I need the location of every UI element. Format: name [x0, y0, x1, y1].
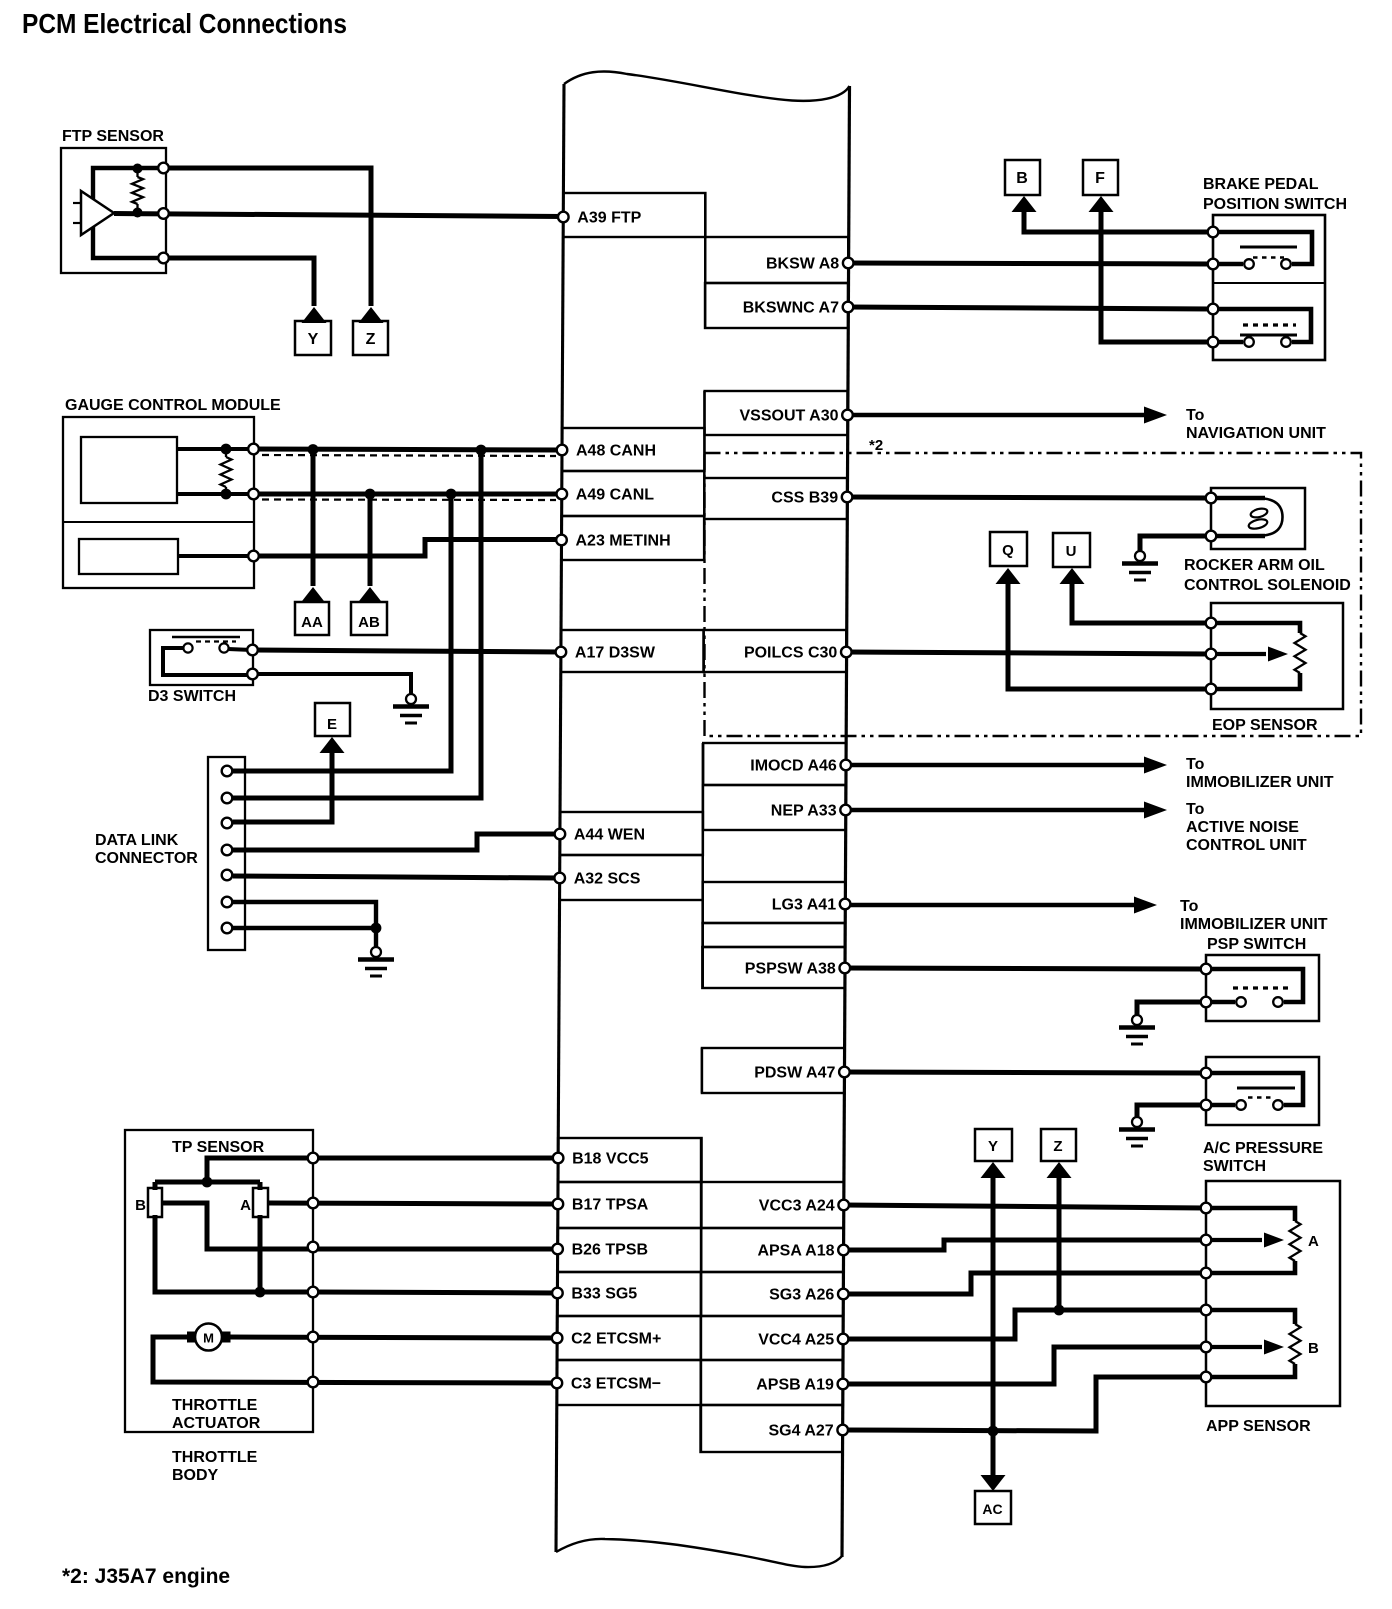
svg-text:APP SENSOR: APP SENSOR	[1206, 1418, 1311, 1435]
PSP switch blade (dashed)	[1233, 986, 1292, 989]
ground (rocker arm solenoid)	[1135, 551, 1145, 561]
wire pin C2 ETCSM+ to throttle actuator	[228, 1337, 557, 1338]
svg-text:C3 ETCSM−: C3 ETCSM−	[571, 1376, 661, 1393]
svg-text:SG4 A27: SG4 A27	[768, 1423, 833, 1440]
svg-text:AB: AB	[358, 614, 380, 631]
gauge control module terminating resistor	[225, 449, 227, 457]
solenoid coil L1	[1211, 496, 1265, 501]
APP sensor pot B resistor	[1206, 1310, 1295, 1324]
APP sensor pot A wiper arrow	[1206, 1238, 1262, 1242]
svg-text:B: B	[1016, 170, 1028, 187]
brake switch terminal circles	[1208, 227, 1219, 238]
svg-text:AA: AA	[301, 614, 323, 631]
wire CANL to data link connector pin 1	[233, 494, 451, 771]
pin LG3 A41	[703, 882, 846, 923]
FTP sensor internal resistor	[136, 168, 138, 177]
gauge control module box	[63, 417, 254, 588]
svg-text:APSA A18: APSA A18	[757, 1243, 834, 1260]
data link connector box	[208, 757, 245, 950]
PCM right bar pin circles	[843, 258, 854, 269]
svg-text:FTP SENSOR: FTP SENSOR	[62, 128, 164, 145]
op-amp U1 (FTP sensor amplifier)	[81, 191, 114, 235]
junction VCC4 to connector Z	[1054, 1305, 1065, 1316]
pin B17 TPSA	[558, 1182, 702, 1228]
svg-text:Z: Z	[1053, 1138, 1062, 1155]
svg-text:A44 WEN: A44 WEN	[574, 827, 645, 844]
svg-text:M: M	[203, 1331, 214, 1346]
wire pin NEP A33 to active noise control unit	[846, 808, 1146, 813]
svg-text:E: E	[327, 716, 337, 733]
FTP sensor feedback loop wire	[93, 168, 163, 258]
wire DLC pin 5 to pin A32 SCS	[233, 876, 560, 878]
D3 switch right contact stub	[228, 649, 252, 650]
gauge control module internal divider	[63, 521, 254, 523]
wire pin APSA A18 to APP sensor wiper A	[844, 1240, 1206, 1250]
A/C pressure switch box	[1206, 1057, 1319, 1125]
connector AC	[981, 1475, 1006, 1491]
pin BKSW A8	[705, 237, 848, 283]
PCM inner divider block VCC5..SG4	[700, 1138, 702, 1452]
pin C3 ETCSM-	[557, 1360, 701, 1405]
svg-text:THROTTLE: THROTTLE	[172, 1397, 258, 1414]
svg-text:POSITION SWITCH: POSITION SWITCH	[1203, 196, 1347, 213]
TP sensor element B	[148, 1188, 162, 1217]
wire pin CSS B39 to solenoid	[847, 497, 1211, 498]
D3 switch terminal circles	[247, 645, 258, 656]
svg-text:ROCKER ARM OIL: ROCKER ARM OIL	[1184, 557, 1325, 574]
brake switch upper internal wire	[1213, 232, 1312, 264]
wire A/C switch to ground	[1137, 1105, 1200, 1117]
svg-text:EOP SENSOR: EOP SENSOR	[1212, 717, 1318, 734]
pin A44 WEN	[560, 812, 703, 855]
svg-text:A/C PRESSURE: A/C PRESSURE	[1203, 1140, 1323, 1157]
A/C switch blade	[1237, 1087, 1295, 1090]
ground (A/C pressure switch)	[1132, 1117, 1142, 1127]
svg-text:BKSW A8: BKSW A8	[766, 256, 839, 273]
svg-text:SWITCH: SWITCH	[1203, 1158, 1266, 1175]
wire pin SG4 A27 to APP sensor	[843, 1377, 1206, 1431]
EOP sensor internal resistor R (pressure element)	[1211, 623, 1300, 633]
connector B	[1012, 196, 1037, 212]
wire solenoid to ground	[1140, 536, 1206, 551]
PCM inner divider block VSSOUT/CSS/CANH/CANL/METINH	[703, 391, 705, 560]
CANL twisted-pair dash line	[262, 498, 556, 501]
connector AB	[358, 587, 383, 603]
blank PCM cell	[703, 923, 846, 947]
brake switch upper blade (open)	[1240, 246, 1297, 249]
wire VCC5 net inside TP sensor	[207, 1158, 313, 1182]
svg-text:B33 SG5: B33 SG5	[571, 1286, 637, 1303]
gauge control module CAN unit box	[81, 437, 177, 503]
svg-text:To: To	[1186, 801, 1205, 818]
wire TP sensor B to pin B26 TPSB	[162, 1203, 558, 1249]
TP sensor element A	[253, 1188, 268, 1217]
PCM inner divider block IMOCD..PSPSW	[702, 743, 704, 988]
wire pin SG3 A26 to APP sensor	[844, 1273, 1207, 1294]
wire pin POILCS C30 to EOP sensor wiper	[846, 652, 1211, 654]
svg-text:Y: Y	[308, 331, 319, 348]
wire DLC pin 4 to pin A44 WEN	[233, 834, 560, 850]
junction DLC ground	[371, 923, 382, 934]
svg-text:ACTUATOR: ACTUATOR	[172, 1415, 261, 1432]
wire CANH net: gauge module to pin A48 CANH	[253, 449, 562, 450]
svg-text:BODY: BODY	[172, 1467, 219, 1484]
svg-text:A17 D3SW: A17 D3SW	[575, 645, 656, 662]
svg-text:PDSW A47: PDSW A47	[754, 1065, 835, 1082]
junction VCC5	[202, 1177, 213, 1188]
connector AA	[301, 587, 326, 603]
pin A48 CANH	[562, 428, 705, 471]
svg-text:D3 SWITCH: D3 SWITCH	[148, 688, 236, 705]
junction CANH to connector AA	[308, 444, 319, 455]
svg-text:A32 SCS: A32 SCS	[574, 871, 641, 888]
brake switch upper contacts	[1213, 262, 1243, 267]
svg-text:CONTROL SOLENOID: CONTROL SOLENOID	[1184, 577, 1351, 594]
PCM connector strip right bar	[842, 86, 850, 1557]
wire CANH drop to connector AA	[311, 449, 316, 586]
svg-text:BRAKE PEDAL: BRAKE PEDAL	[1203, 176, 1319, 193]
EOP sensor box	[1211, 603, 1343, 709]
brake switch lower internal wire	[1213, 309, 1311, 342]
APP sensor pot A resistor	[1206, 1208, 1295, 1221]
svg-text:Z: Z	[366, 331, 376, 348]
svg-text:U: U	[1066, 543, 1077, 560]
wire lower unit to METINH terminal	[178, 554, 253, 558]
solenoid terminal circles	[1206, 493, 1217, 504]
svg-text:A: A	[1308, 1233, 1319, 1250]
APP sensor terminal circles	[1201, 1203, 1212, 1214]
pin APSB A19	[701, 1360, 843, 1405]
wire pin B33 SG5 to TP sensor	[313, 1292, 558, 1293]
svg-text:APSB A19: APSB A19	[756, 1377, 834, 1394]
wire METINH net to pin A23 METINH	[253, 540, 562, 557]
svg-text:PSPSW A38: PSPSW A38	[745, 961, 836, 978]
PSP switch contacts	[1206, 1000, 1235, 1005]
svg-text:To: To	[1180, 898, 1199, 915]
wire junction to connector Z	[1057, 1178, 1062, 1310]
svg-text:BKSWNC A7: BKSWNC A7	[743, 300, 839, 317]
data link connector pin circles	[222, 766, 233, 777]
pin SG3 A26	[701, 1272, 843, 1316]
svg-text:Q: Q	[1002, 542, 1014, 559]
pin PSPSW A38	[702, 947, 845, 988]
connector Z (lower)	[1047, 1162, 1072, 1178]
svg-text:IMOCD A46: IMOCD A46	[750, 758, 837, 775]
wire CANL drop to connector AB	[368, 494, 373, 586]
pin APSA A18	[701, 1228, 843, 1272]
svg-text:VCC4 A25: VCC4 A25	[758, 1332, 834, 1349]
pin B18 VCC5	[558, 1138, 702, 1182]
gauge control module lower unit box	[79, 539, 178, 574]
pin A17 D3SW	[561, 630, 704, 672]
pin SG4 A27	[701, 1405, 843, 1452]
connector F	[1089, 196, 1114, 212]
svg-text:CSS B39: CSS B39	[771, 490, 838, 507]
APP sensor pot B wiper arrow	[1206, 1345, 1262, 1349]
throttle actuator motor M1	[187, 1332, 200, 1343]
brake pedal position switch box	[1213, 215, 1325, 360]
A/C switch internal wire	[1206, 1073, 1303, 1105]
EOP sensor terminal circles	[1206, 618, 1217, 629]
PCM strip torn bottom edge	[556, 1539, 842, 1567]
FTP sensor box	[61, 148, 166, 273]
svg-text:THROTTLE: THROTTLE	[172, 1449, 258, 1466]
wire D3 switch to ground	[252, 674, 411, 694]
svg-text:GAUGE CONTROL MODULE: GAUGE CONTROL MODULE	[65, 397, 281, 414]
wire pin B18 VCC5 to TP sensor	[313, 1156, 558, 1161]
svg-text:Y: Y	[988, 1138, 998, 1155]
wire pin PSPSW A38 to PSP switch	[845, 968, 1206, 969]
D3 switch blade (open)	[172, 636, 240, 639]
svg-text:CONNECTOR: CONNECTOR	[95, 850, 198, 867]
wire SG5 net inside TP sensor	[155, 1215, 313, 1292]
junction CANL to connector AB	[365, 489, 376, 500]
wire pin BKSW A8 to brake switch	[848, 263, 1213, 264]
svg-text:SG3 A26: SG3 A26	[769, 1287, 834, 1304]
PCM strip torn top edge	[564, 71, 850, 100]
connector U	[1060, 568, 1085, 584]
svg-text:DATA LINK: DATA LINK	[95, 832, 179, 849]
svg-text:CONTROL UNIT: CONTROL UNIT	[1186, 837, 1307, 854]
svg-text:A49 CANL: A49 CANL	[576, 487, 654, 504]
wire CAN unit to CANL terminal	[177, 492, 253, 496]
svg-text:B: B	[1308, 1340, 1319, 1357]
wire FTP upper terminal to connector Z	[163, 168, 371, 306]
connector Q	[996, 568, 1021, 584]
connector Z (under-dash fuse box)	[359, 307, 384, 323]
wire pin VCC4 A25 to APP sensor	[843, 1310, 1206, 1339]
ground (data link connector)	[371, 947, 381, 957]
svg-text:*2: J35A7 engine: *2: J35A7 engine	[62, 1565, 230, 1588]
gauge control module terminal circles	[248, 444, 259, 455]
svg-text:A39 FTP: A39 FTP	[577, 210, 641, 227]
svg-text:POILCS C30: POILCS C30	[744, 645, 837, 662]
svg-text:LG3 A41: LG3 A41	[772, 897, 836, 914]
svg-text:B: B	[135, 1197, 146, 1214]
svg-text:A23 METINH: A23 METINH	[576, 533, 671, 550]
ground (D3 switch)	[406, 694, 416, 704]
PSP switch internal wire	[1206, 969, 1303, 1002]
dash-dot enclosure for *2 J35A7 engine section	[705, 453, 1362, 736]
pin A39 FTP	[563, 193, 705, 237]
pin POILCS C30	[704, 630, 847, 672]
wire CAN unit to CANH terminal	[177, 447, 253, 451]
svg-text:PCM Electrical Connections: PCM Electrical Connections	[22, 8, 347, 39]
svg-text:To: To	[1186, 407, 1205, 424]
wire CANL net: gauge module to pin A49 CANL	[253, 492, 562, 497]
junction SG5	[255, 1287, 266, 1298]
wire EOP sensor to connector Q	[1008, 584, 1211, 689]
APP sensor box	[1206, 1181, 1340, 1406]
junction CANH to data link connector pin 2	[476, 445, 487, 456]
svg-text:IMMOBILIZER UNIT: IMMOBILIZER UNIT	[1180, 916, 1328, 933]
svg-text:A48 CANH: A48 CANH	[576, 443, 656, 460]
pin CSS B39	[704, 478, 847, 519]
wire pin LG3 A41 to immobilizer unit	[845, 903, 1136, 908]
wire PSP switch to ground	[1137, 1002, 1200, 1015]
svg-text:VSSOUT A30: VSSOUT A30	[740, 408, 839, 425]
pin VSSOUT A30	[705, 391, 848, 435]
D3 switch contacts	[183, 643, 192, 652]
svg-text:NEP A33: NEP A33	[771, 803, 837, 820]
brake switch lower contacts	[1213, 340, 1243, 345]
D3 switch left contact loop	[163, 648, 252, 675]
wire junction to ground	[374, 928, 378, 947]
throttle body box	[125, 1130, 313, 1432]
pin VCC4 A25	[701, 1316, 843, 1360]
PSP switch terminal circles	[1201, 964, 1212, 975]
ground (PSP switch)	[1132, 1015, 1142, 1025]
pin A23 METINH	[562, 516, 705, 560]
wire pin VSSOUT A30 to navigation unit	[848, 413, 1147, 418]
svg-text:B17 TPSA: B17 TPSA	[572, 1197, 649, 1214]
wire pin IMOCD A46 to immobilizer unit	[846, 763, 1146, 768]
pin B33 SG5	[557, 1272, 701, 1316]
wire DLC pin 7 to ground	[233, 926, 376, 930]
wire pin BKSWNC A7 to brake switch	[848, 307, 1213, 309]
wire junction to connector Y	[991, 1178, 996, 1431]
svg-text:F: F	[1095, 170, 1105, 187]
wire brake switch to connector F	[1101, 212, 1213, 342]
wire FTP output to pin A39 FTP	[114, 214, 563, 217]
D3 switch box	[150, 630, 253, 685]
connector Y (lower)	[981, 1162, 1006, 1178]
rocker arm oil control solenoid box	[1211, 488, 1305, 549]
PCM connector strip left bar	[556, 84, 564, 1552]
connector E	[320, 737, 345, 753]
wire brake switch to connector B	[1024, 212, 1213, 232]
pin C2 ETCSM+	[557, 1316, 701, 1360]
pin B26 TPSB	[558, 1228, 702, 1272]
pin BKSWNC A7	[705, 283, 848, 328]
wire DLC pin 3 to connector E	[233, 752, 332, 822]
wire pin PDSW A47 to A/C pressure switch	[845, 1072, 1207, 1073]
PCM left bar pin circles	[558, 212, 569, 223]
wire CANH to data link connector pin 2	[233, 450, 481, 798]
PCM inner divider block D3SW/POILCS	[702, 630, 704, 672]
svg-text:TP SENSOR: TP SENSOR	[172, 1139, 265, 1156]
svg-text:VCC3 A24: VCC3 A24	[759, 1198, 835, 1215]
brake switch lower blade (closed)	[1243, 323, 1296, 326]
svg-text:To: To	[1186, 756, 1205, 773]
wire junction to connector AC	[991, 1431, 996, 1476]
A/C switch contacts	[1206, 1103, 1235, 1108]
CANH twisted-pair dash line	[262, 455, 556, 456]
svg-text:B26 TPSB: B26 TPSB	[572, 1242, 648, 1259]
wire throttle actuator to pin C3 ETCSM-	[153, 1337, 557, 1383]
pin A32 SCS	[560, 855, 703, 900]
svg-text:PSP SWITCH: PSP SWITCH	[1207, 936, 1306, 953]
pin IMOCD A46	[703, 743, 846, 785]
PCM inner divider block A39/BKSW/BKSWNC	[704, 193, 706, 328]
junction CANL to data link connector pin 1	[446, 489, 457, 500]
PSP switch box	[1206, 955, 1319, 1021]
A/C switch terminal circles	[1201, 1068, 1212, 1079]
wire DLC pin 6 to ground junction	[233, 902, 376, 928]
wire EOP sensor to connector U	[1072, 584, 1211, 623]
pin A49 CANL	[562, 471, 705, 516]
svg-text:AC: AC	[982, 1501, 1002, 1517]
svg-text:NAVIGATION UNIT: NAVIGATION UNIT	[1186, 425, 1326, 442]
wire TP sensor A wiper to pin B17 TPSA	[268, 1203, 558, 1204]
pin VCC3 A24	[701, 1182, 843, 1228]
PCM inner divider block PDSW	[701, 1048, 703, 1093]
FTP sensor terminal circles	[158, 163, 169, 174]
pin NEP A33	[703, 785, 846, 830]
svg-text:C2 ETCSM+: C2 ETCSM+	[571, 1331, 661, 1348]
svg-text:IMMOBILIZER UNIT: IMMOBILIZER UNIT	[1186, 774, 1334, 791]
wire pin VCC3 A24 to APP sensor	[844, 1205, 1206, 1208]
svg-text:B18 VCC5: B18 VCC5	[572, 1151, 649, 1168]
svg-text:A: A	[240, 1197, 251, 1214]
junction SG4 to connectors Y/AC	[988, 1426, 999, 1437]
throttle body terminal circles	[308, 1153, 319, 1164]
connector Y	[302, 307, 327, 323]
brake pedal switch internal divider	[1213, 282, 1325, 284]
pin PDSW A47	[702, 1048, 845, 1093]
svg-text:ACTIVE NOISE: ACTIVE NOISE	[1186, 819, 1299, 836]
wire D3 switch to pin A17 D3SW	[252, 650, 561, 652]
wire FTP lower terminal to connector Y	[163, 258, 314, 306]
wire pin APSB A19 to APP sensor wiper B	[843, 1347, 1206, 1384]
svg-text:*2: *2	[869, 437, 883, 454]
